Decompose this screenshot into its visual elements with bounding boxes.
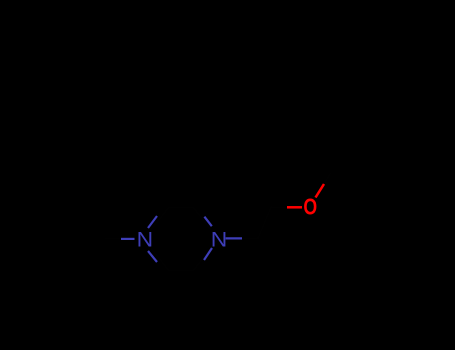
bond N1-C ring down (blue half): [148, 251, 157, 262]
bond O-CH3 (red part): [316, 184, 325, 198]
piperazine ring (carbon bonds, near-invisible): [105, 173, 332, 271]
svg-text:N: N: [137, 228, 154, 252]
svg-text:N: N: [211, 228, 228, 252]
bond N1-CH3 (blue half): [121, 238, 135, 240]
bond N2-C ring down (blue half): [204, 248, 212, 260]
bond CH2-O (red half): [287, 206, 302, 209]
methyl C0 bond half: [105, 237, 122, 240]
chain C1 bond: [242, 207, 287, 239]
bond N2-CH2 (blue half): [226, 237, 242, 239]
methyl C3 bond half: [324, 173, 331, 185]
bond N1-C ring up (blue half): [148, 216, 157, 228]
bond N2-C ring up (blue half): [204, 217, 211, 227]
svg-text:O: O: [303, 194, 317, 220]
